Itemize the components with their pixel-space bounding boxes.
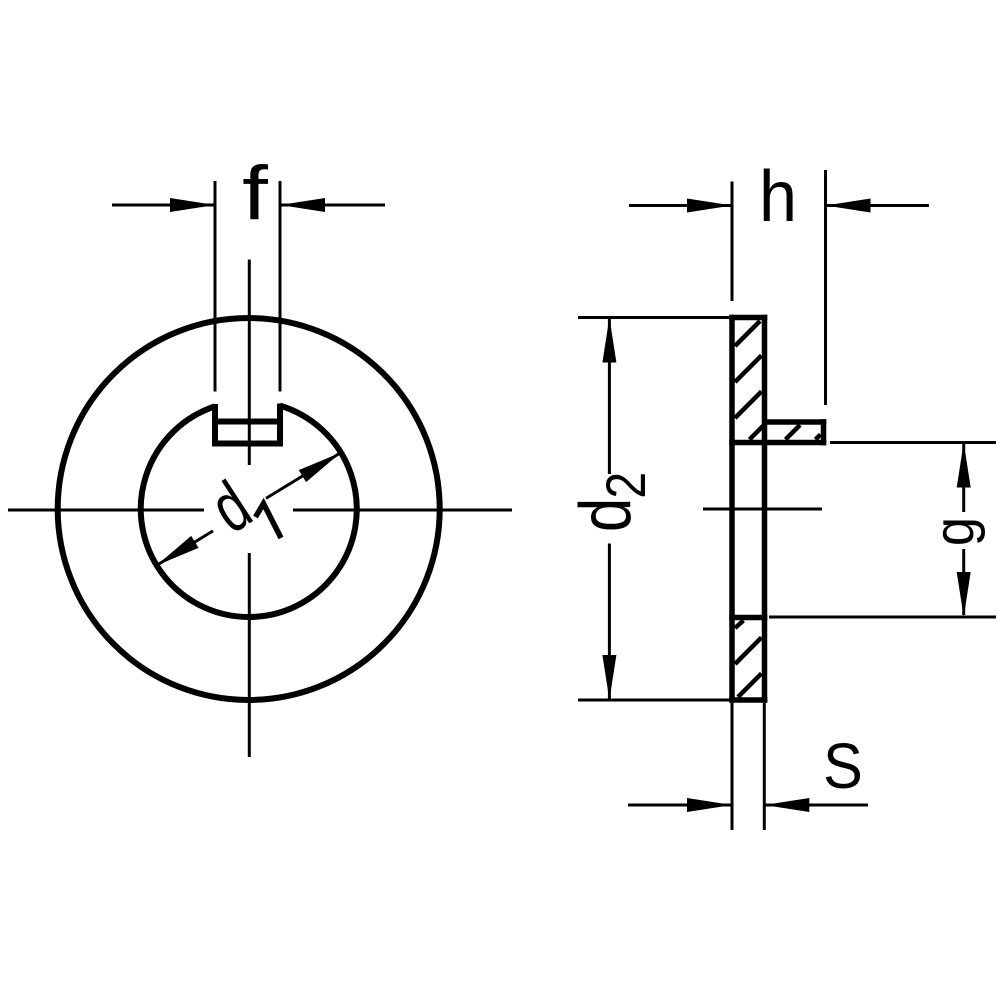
dimension f: extension lines [214,181,217,392]
dimension g: extension lines [830,441,996,444]
dimension d2: dimension line with arrows [608,318,611,474]
dimension d1: lower-left arrow [157,536,199,566]
section outline: left edge [729,315,735,703]
dimension f: left dimension line with arrow [112,204,215,207]
section outline: bottom edge [729,697,767,703]
notch left vertical [212,404,218,447]
hatching, upper section and tab [735,321,821,440]
section outline: right edge [762,315,768,703]
label d1 subscript 1 (drawn) [256,504,282,539]
inner circle (bore d1, front view, broken at top notch) [141,406,357,617]
dimension s: extension lines [731,703,734,830]
hatching, lower section [735,621,762,698]
notch lower horizontal (tab inner edge) [212,441,283,447]
svg-text:f: f [242,150,268,235]
notch upper horizontal (tab edge) [212,419,283,425]
section outline: top edge [729,315,767,321]
notch right vertical [277,404,283,447]
dimension s: left dimension line with arrow [628,804,732,807]
tab right end [821,419,827,445]
tab bottom edge [729,440,826,446]
bore bottom edge in section [729,615,767,621]
dimension h: left dimension line with arrow [629,204,732,207]
dimension d1: diagonal dimension line [157,531,213,566]
dimension s: right dimension line with arrow [764,804,868,807]
horizontal center line, front view [8,509,204,512]
dimension h: extension lines [731,182,734,302]
dimension d1: upper-right arrow [299,453,341,483]
center line, section view [703,508,822,511]
vertical center line, front view [248,260,251,466]
dimension h: right dimension line with arrow [826,204,930,207]
dimension g: dimension line with arrows [962,444,965,512]
svg-text:S: S [823,731,863,802]
svg-text:g: g [921,517,986,546]
svg-text:h: h [759,155,797,236]
outer circle (washer outside diameter d2, front view) [58,318,440,700]
tab top edge [765,419,827,425]
dimension d2: extension lines [578,316,729,319]
dimension f: right dimension line with arrow [280,204,385,207]
